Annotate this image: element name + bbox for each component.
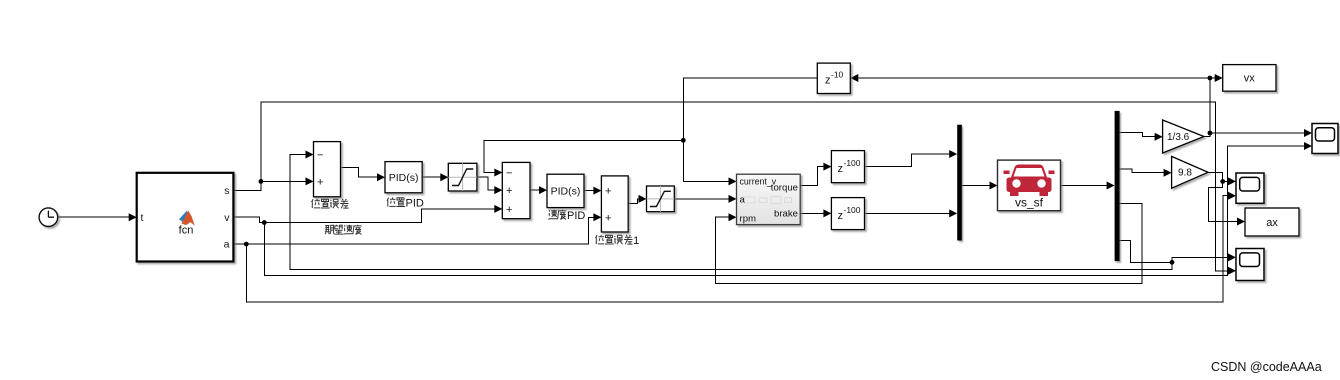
junction position feedback xyxy=(1170,260,1175,265)
arrow into mux bar1 in1 xyxy=(949,150,957,158)
wire fcn a to sum3 second input xyxy=(233,217,595,244)
svg-text:ax: ax xyxy=(1266,217,1278,229)
arrow into scope2 in2 xyxy=(1228,267,1236,275)
MATLAB function block fcn xyxy=(137,173,234,262)
arrow into sum1 minus xyxy=(306,151,314,159)
arrow into sum2 minus xyxy=(494,169,502,177)
svg-text:brake: brake xyxy=(774,208,798,219)
arrow into fcn t xyxy=(129,213,137,221)
wire z100b to mux bar1 in2 xyxy=(865,212,952,214)
sum block speed error xyxy=(502,162,530,218)
car icon xyxy=(1004,165,1055,197)
arrow into z-10 pointing left xyxy=(850,74,858,82)
junction v branch xyxy=(262,220,267,225)
junction a branch xyxy=(244,242,249,247)
arrow into saturation2 xyxy=(639,195,647,203)
wire gain1 out to right scope in1 xyxy=(1204,133,1306,137)
svg-text:-100: -100 xyxy=(844,158,861,168)
wire bar2 out2 to gain 9.8 xyxy=(1120,169,1166,173)
clock source xyxy=(39,208,58,227)
junction gain1 out xyxy=(1208,131,1213,136)
arrow into scope2 in1 xyxy=(1228,253,1236,261)
wire a branch bottom to scope1 in2 xyxy=(246,196,1230,302)
wire sum3 out to saturation2 xyxy=(628,199,640,204)
vs_sf vehicle block xyxy=(998,160,1061,211)
wire fcn v to sum2 third input xyxy=(233,209,496,223)
svg-text:z: z xyxy=(838,163,844,175)
wire long top feedback s to scope2 in2 xyxy=(261,102,1230,271)
wire junction to scope2 in1 xyxy=(1172,257,1230,262)
arrow into z100b xyxy=(823,209,831,217)
wire bar2 out4 to junction xyxy=(1120,241,1172,263)
wire bar2 out3 rpm feedback loop xyxy=(716,204,1142,284)
wire gain1 riser to vx and z-10 xyxy=(857,78,1217,133)
wire PID1 to saturation1 xyxy=(422,176,442,178)
junction gain2 out xyxy=(1220,179,1225,184)
svg-text:vs_sf: vs_sf xyxy=(1015,196,1044,210)
wire z-10 out to junction xyxy=(683,78,817,140)
label 位置误差 xyxy=(312,199,349,208)
arrow into ax display xyxy=(1237,218,1245,226)
vx display xyxy=(1223,65,1276,92)
wire brake out to z100b xyxy=(800,212,825,214)
svg-text:s: s xyxy=(224,185,229,197)
wire mux bar1 to vs_sf xyxy=(962,185,992,187)
svg-text:+: + xyxy=(605,212,611,224)
wire junction to current_v input xyxy=(683,140,730,181)
unit delay z-100 lower xyxy=(831,198,864,230)
scope2 xyxy=(1236,249,1264,281)
junction vx takeoff xyxy=(1208,76,1213,81)
arrow into z100a xyxy=(823,163,831,171)
wire fcn s to junction and sum1 plus xyxy=(233,181,307,190)
svg-text:v: v xyxy=(224,212,230,224)
arrow into PID1 xyxy=(377,173,385,181)
svg-text:+: + xyxy=(317,176,323,188)
svg-text:fcn: fcn xyxy=(179,225,194,237)
scope1 xyxy=(1236,173,1264,203)
saturation1 xyxy=(448,163,477,191)
arrow into demux bar2 xyxy=(1107,182,1115,190)
wire junction feedback to sum1 minus xyxy=(290,155,1172,270)
svg-text:a: a xyxy=(740,194,746,205)
arrow into subsystem a xyxy=(729,195,737,203)
svg-text:+: + xyxy=(506,185,512,197)
wire junction to sum2 minus xyxy=(484,140,683,172)
right edge scope xyxy=(1312,124,1338,154)
svg-text:+: + xyxy=(605,186,611,198)
svg-text:z: z xyxy=(838,210,844,222)
PID controller 位置PID xyxy=(385,162,422,193)
unit delay z-10 xyxy=(817,63,850,93)
svg-text:torque: torque xyxy=(771,182,798,193)
wire gain2 branch to ax display xyxy=(1209,181,1240,221)
label 位置PID xyxy=(387,197,424,209)
wire z100a to mux bar1 in1 xyxy=(865,154,952,167)
ax display xyxy=(1245,208,1299,236)
svg-text:a: a xyxy=(224,239,230,251)
svg-text:-100: -100 xyxy=(844,205,861,215)
arrow into sum2 plus2 xyxy=(494,186,502,194)
saturation2 xyxy=(647,186,675,212)
wire v branch to right scope in2 xyxy=(264,146,1306,276)
arrow into right scope in2 xyxy=(1304,142,1312,150)
gain 1/3.6 xyxy=(1163,120,1204,153)
arrow into gain1 xyxy=(1155,133,1163,141)
matlab logo xyxy=(179,210,195,225)
svg-text:PID(s): PID(s) xyxy=(389,172,419,184)
mux bar1 xyxy=(957,125,962,241)
svg-text:-10: -10 xyxy=(831,70,844,80)
svg-text:PID(s): PID(s) xyxy=(551,186,581,198)
wire vs_sf to demux bar2 xyxy=(1061,185,1109,187)
arrow into sum3 plus2 xyxy=(593,213,601,221)
svg-text:z: z xyxy=(825,75,831,87)
label 速度PID xyxy=(548,210,585,222)
sum block 位置误差 xyxy=(314,142,341,197)
svg-text:1/3.6: 1/3.6 xyxy=(1167,132,1190,143)
arrow into scope1 in1 xyxy=(1228,177,1236,185)
demux bar2 xyxy=(1115,111,1120,261)
arrow into subsystem rpm xyxy=(729,213,737,221)
arrow into vs_sf xyxy=(990,182,998,190)
wire torque out to z100a xyxy=(800,167,825,186)
arrow into sum3 plus1 xyxy=(593,187,601,195)
svg-text:PID: PID xyxy=(567,210,585,222)
svg-text:−: − xyxy=(317,150,323,162)
svg-text:CSDN @codeAAAa: CSDN @codeAAAa xyxy=(1211,360,1322,374)
arrow into PID2 xyxy=(539,186,547,194)
arrow into scope1 in2 xyxy=(1228,192,1236,200)
arrow into saturation1 xyxy=(440,173,448,181)
junction s branch xyxy=(259,179,264,184)
PID controller 速度PID xyxy=(547,174,584,207)
label 位置误差1 xyxy=(596,235,640,247)
sum block 位置误差1 xyxy=(601,176,628,232)
arrow into right scope in1 xyxy=(1304,129,1312,137)
junction z-10 split xyxy=(681,138,686,143)
svg-text:1: 1 xyxy=(633,235,639,247)
arrow into subsystem current_v xyxy=(729,177,737,185)
svg-text:−: − xyxy=(506,168,512,180)
arrow into sum2 plus3 xyxy=(494,205,502,213)
arrow into sum1 plus xyxy=(306,177,314,185)
wire clock to fcn t xyxy=(58,216,131,218)
svg-text:vx: vx xyxy=(1244,73,1256,85)
wire gain2 out to scope1 in1 xyxy=(1208,172,1230,181)
gain 9.8 xyxy=(1172,156,1208,188)
svg-text:PID: PID xyxy=(406,198,424,210)
svg-text:+: + xyxy=(506,204,512,216)
vehicle subsystem block xyxy=(737,174,801,224)
unit delay z-100 upper xyxy=(831,151,864,183)
wire PID2 to sum3 first input xyxy=(584,190,596,192)
arrow into vx display xyxy=(1215,74,1223,82)
wire bar2 out1 to gain 1/3.6 xyxy=(1120,133,1157,137)
svg-text:9.8: 9.8 xyxy=(1178,168,1192,179)
label 期望速度 xyxy=(325,225,362,235)
wire sum2 out to PID2 xyxy=(530,189,541,191)
svg-text:t: t xyxy=(141,212,144,224)
arrow into gain2 xyxy=(1164,169,1172,177)
wire sum1 out to PID1 xyxy=(341,167,380,177)
arrow into mux bar1 in2 xyxy=(949,209,957,217)
wire saturation2 to subsystem a input xyxy=(674,198,730,200)
svg-text:rpm: rpm xyxy=(740,213,757,224)
wire saturation1 to sum2 plus xyxy=(477,177,497,190)
